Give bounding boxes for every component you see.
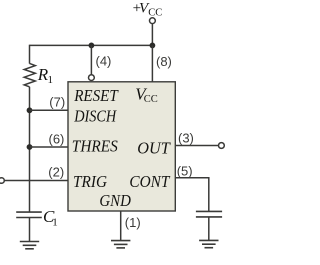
svg-text:CC: CC xyxy=(148,7,162,18)
svg-text:1: 1 xyxy=(48,74,54,86)
wire pin 2 trigger input xyxy=(4,180,68,182)
svg-text:(6): (6) xyxy=(49,132,65,147)
svg-text:(1): (1) xyxy=(125,215,141,230)
svg-text:(7): (7) xyxy=(49,95,65,110)
svg-text:TRIG: TRIG xyxy=(73,172,107,191)
node junction pin6 xyxy=(27,144,33,150)
capacitor C2 (control) xyxy=(196,211,222,217)
capacitor C1 xyxy=(16,207,58,228)
svg-text:CC: CC xyxy=(144,94,158,105)
svg-text:1: 1 xyxy=(52,216,58,228)
pin 4 terminal (open circle at reset) xyxy=(89,75,95,81)
svg-text:(4): (4) xyxy=(96,54,112,69)
svg-text:(8): (8) xyxy=(156,54,172,69)
wire C2 to ground xyxy=(208,217,210,241)
svg-text:(2): (2) xyxy=(48,164,64,179)
svg-text:(3): (3) xyxy=(178,131,194,146)
wire pin 4 xyxy=(90,45,92,74)
svg-text:GND: GND xyxy=(99,191,131,210)
ground (C1) xyxy=(20,242,39,249)
output terminal (open circle) xyxy=(219,143,225,149)
wire Vcc terminal to junction xyxy=(151,24,153,46)
wire C1 to ground xyxy=(29,218,31,242)
svg-text:DISCH: DISCH xyxy=(73,107,117,126)
svg-text:CONT: CONT xyxy=(129,172,170,191)
resistor R1 xyxy=(24,63,53,86)
wire pin 1 gnd xyxy=(120,211,122,241)
svg-text:RESET: RESET xyxy=(73,86,119,105)
wire top rail xyxy=(30,44,153,46)
wire pin 3 output xyxy=(175,145,218,147)
wire left rail upper xyxy=(29,45,31,64)
input terminal (open circle, left) xyxy=(0,178,4,184)
svg-text:(5): (5) xyxy=(177,164,193,179)
wire pin 5 control xyxy=(175,178,209,212)
+Vcc terminal (open circle) xyxy=(150,18,156,24)
ground (pin 1) xyxy=(111,241,130,248)
node junction Vcc xyxy=(150,43,156,49)
svg-text:THRES: THRES xyxy=(72,136,118,155)
ground (C2) xyxy=(199,240,218,247)
node junction pin7/R1 xyxy=(27,107,33,113)
wire pin 7 xyxy=(30,109,69,111)
wire pin 8 xyxy=(151,45,153,81)
IC U1 555 timer body xyxy=(68,82,175,211)
wire pin 6 xyxy=(30,146,69,148)
wire left rail lower xyxy=(29,87,31,212)
node junction pin4 xyxy=(89,43,95,49)
svg-text:OUT: OUT xyxy=(137,139,171,158)
+Vcc label xyxy=(133,1,163,19)
